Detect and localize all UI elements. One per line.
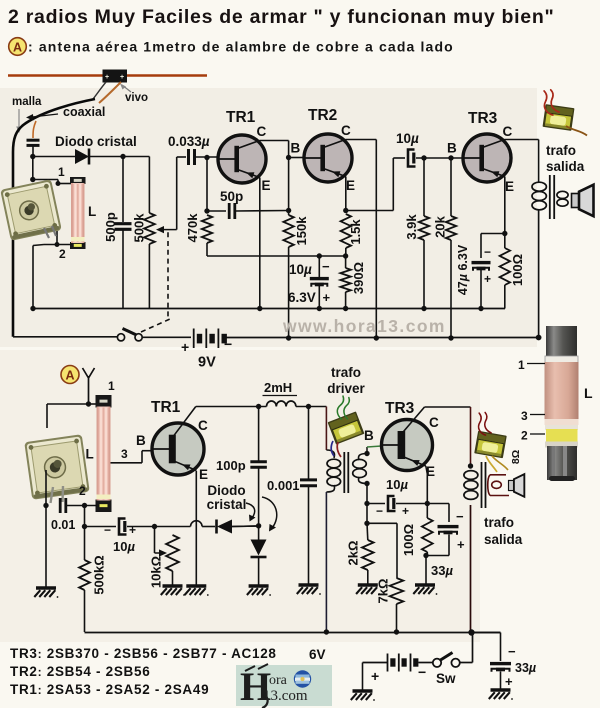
svg-text:C: C [198, 418, 208, 433]
wire green to TR3b base [366, 447, 368, 454]
vivo lead wires [93, 82, 106, 99]
svg-text:−: − [456, 509, 464, 524]
node coil bottom [82, 503, 87, 508]
svg-text:vivo: vivo [125, 92, 148, 104]
bottom rail [85, 632, 501, 634]
node 50p left [204, 208, 209, 213]
node TR3 emitter [502, 231, 507, 236]
svg-text:A: A [65, 369, 74, 383]
diode D3 vertical [251, 540, 267, 556]
svg-text:100Ω: 100Ω [401, 524, 416, 556]
wire 33u corner ground [500, 672, 502, 690]
coil L bottom [96, 395, 112, 408]
capacitor 50p [228, 203, 231, 219]
svg-text:10µ: 10µ [113, 539, 135, 554]
capacitor 500p [115, 222, 132, 225]
wire battery to Sw [418, 662, 433, 664]
wire to coil tap1 [33, 179, 58, 181]
svg-text:470k: 470k [185, 213, 200, 243]
svg-text:coaxial: coaxial [63, 105, 105, 119]
wire D3 stem [258, 526, 260, 540]
ground under TR1b emitter [186, 584, 206, 587]
ground under 2k [358, 583, 378, 586]
battery wire [226, 337, 539, 339]
transistor TR3 bottom [382, 420, 433, 471]
wire coil bottom down [84, 506, 86, 527]
resistor 1.5k [341, 214, 351, 248]
tuning capacitor photo bottom [24, 434, 90, 500]
transistor TR2 [304, 134, 352, 182]
node 50p right [286, 208, 291, 213]
wire 1.5k to common line [345, 248, 347, 256]
svg-text:13.com: 13.com [263, 688, 308, 704]
svg-text:driver: driver [327, 381, 365, 396]
svg-text:2mH: 2mH [264, 380, 292, 395]
node 3.9k rail [421, 306, 426, 311]
svg-text:10kΩ: 10kΩ [149, 556, 164, 588]
svg-text:+: + [505, 674, 513, 689]
svg-text:500k: 500k [132, 213, 147, 243]
wire base node down to 50p line [206, 158, 208, 212]
capacitor 47u 6.3V [472, 261, 491, 264]
wire TR2 base [289, 157, 304, 159]
node common line right [343, 253, 348, 258]
svg-text:6.3V: 6.3V [288, 290, 316, 305]
node 390-rail [343, 306, 348, 311]
wire 0.001 stem [308, 406, 310, 480]
node 150k battery wire [286, 335, 291, 340]
node 100p top [256, 404, 261, 409]
node TR2 collector battery wire [374, 335, 379, 340]
wire wiper to coupling cap [176, 157, 178, 230]
inductor 2mH [267, 401, 296, 407]
svg-text:−: − [376, 504, 383, 518]
svg-text:: antena aérea 1metro de alam: : antena aérea 1metro de alambre de cobr… [28, 39, 454, 55]
svg-text:9V: 9V [198, 355, 216, 371]
trafo salida b primary [464, 471, 478, 480]
wire TR2 emitter to 10u coupling riser [346, 210, 394, 212]
rail (B+ line) [33, 308, 505, 310]
svg-text:2: 2 [79, 484, 86, 498]
antenna note callout A circle [9, 38, 27, 56]
switch top circuit [117, 334, 124, 341]
svg-text:TR2: TR2 [308, 107, 337, 124]
capacitor 0.01 [59, 498, 62, 513]
diode D2 horizontal [215, 520, 218, 534]
svg-text:A: A [13, 41, 22, 55]
svg-text:2: 2 [59, 247, 66, 261]
svg-text:+: + [181, 339, 189, 355]
wire 0.033u to TR1 base [195, 156, 219, 158]
wire emitter to 47u corner [481, 233, 505, 235]
rail left corner [32, 246, 34, 309]
node tap1 [56, 181, 61, 186]
node 10ub left [364, 501, 369, 506]
trafo driver photo [328, 411, 365, 444]
transistor TR1 [218, 135, 266, 183]
wire TR3b collector [425, 406, 471, 408]
svg-text:TR1: TR1 [151, 399, 181, 416]
node emitter-rail [257, 306, 262, 311]
wire TR1b emitter to ground [195, 471, 197, 585]
resistor 470k [202, 215, 212, 243]
resistor 7kohm [390, 578, 404, 604]
svg-text:150k: 150k [294, 216, 309, 246]
svg-text:+: + [323, 290, 331, 305]
wire 10u bypass to rail [318, 286, 320, 309]
trafo salida photo top [543, 104, 575, 131]
svg-text:C: C [341, 123, 351, 138]
500k wiper arrow [163, 229, 177, 231]
resistor 390 [340, 268, 350, 292]
svg-text:E: E [505, 179, 514, 194]
resistor 3.9k [419, 216, 429, 240]
node diode junction [256, 523, 261, 528]
node antenna [86, 401, 91, 406]
capacitor 100p [250, 460, 267, 463]
coaxial cable [13, 99, 95, 337]
node tuning top [30, 177, 35, 182]
wire 7k top [367, 522, 397, 524]
wire 10u top [318, 256, 320, 277]
battery 9V [193, 329, 195, 349]
svg-text:10µ: 10µ [396, 131, 419, 146]
capacitor 10u coupling [408, 150, 416, 167]
svg-text:B: B [291, 141, 301, 156]
trafo driver primary [326, 450, 334, 458]
wire 2k stem [366, 523, 369, 540]
diode D1 cristal [75, 149, 89, 164]
scan texture top circuit [0, 88, 537, 347]
wire 100ohmb stem [426, 504, 428, 519]
node 0.01 left [43, 503, 48, 508]
wire tuning to 0.01 [45, 470, 47, 505]
coil L top circuit [70, 177, 86, 184]
trafo driver core [343, 452, 345, 493]
wire 500p to rail [122, 230, 124, 309]
wire 390 to rail [345, 292, 347, 309]
svg-text:TR1: 2SA53 - 2SA52 - 2SA49: TR1: 2SA53 - 2SA52 - 2SA49 [10, 682, 209, 697]
capacitor 0.033u [187, 149, 190, 165]
svg-text:L: L [584, 385, 593, 401]
svg-text:TR2: 2SB54 - 2SB56: TR2: 2SB54 - 2SB56 [10, 664, 150, 679]
curved arrow to D3 [262, 497, 277, 528]
node 7k rail [394, 629, 399, 634]
svg-text:−: − [224, 336, 232, 352]
trafo salida b photo [474, 431, 507, 459]
svg-text:7kΩ: 7kΩ [376, 579, 391, 604]
malla coupling wire (orange) [33, 121, 36, 138]
svg-text:8Ω: 8Ω [510, 450, 522, 464]
svg-text:Sw: Sw [436, 671, 456, 686]
svg-text:L: L [86, 447, 94, 462]
node detector-left [30, 154, 35, 159]
tap2 wire [56, 231, 58, 244]
tuning cap prongs top [44, 226, 56, 238]
resistor 2kohm [362, 540, 374, 570]
node driver rail [324, 629, 329, 634]
svg-text:+: + [120, 74, 124, 81]
svg-text:Diodo cristal: Diodo cristal [55, 134, 137, 149]
svg-text:TR3: TR3 [468, 110, 498, 127]
svg-text:0.01: 0.01 [51, 518, 75, 532]
wire hop over emitter [155, 526, 191, 528]
resistor 100ohm bottom [422, 518, 433, 552]
wire 33u branch [427, 503, 449, 505]
wire TR3 collector [505, 139, 539, 141]
svg-text:www.hora13.com: www.hora13.com [282, 316, 446, 336]
svg-text:390Ω: 390Ω [351, 262, 366, 294]
trafo salida secondary top [557, 191, 568, 198]
svg-text:6V: 6V [309, 647, 326, 662]
ground under D3 [249, 584, 269, 587]
node 2k top [364, 521, 369, 526]
svg-text:+: + [484, 272, 491, 286]
trafo salida primary coil top [538, 140, 540, 179]
10k wiper line [154, 527, 156, 554]
svg-text:500kΩ: 500kΩ [92, 555, 107, 594]
svg-text:L: L [88, 204, 96, 219]
ground under 10k [163, 584, 183, 587]
svg-text:33µ: 33µ [515, 661, 536, 675]
node 47u rail [478, 306, 483, 311]
node 10u-rail [317, 306, 322, 311]
wire to ground 100ohmb [425, 556, 427, 585]
wire node to 2k [366, 504, 368, 524]
wire 100p stem [258, 406, 260, 462]
svg-text:1: 1 [108, 379, 115, 393]
svg-text:B: B [447, 141, 457, 156]
wire antenna node to tuning [47, 403, 89, 405]
transistor TR3 top [463, 134, 511, 182]
ferrite rod photo [545, 326, 579, 481]
tuning cap prongs bottom [51, 486, 64, 503]
coaxial arrow [32, 114, 58, 117]
svg-text:salida: salida [546, 159, 585, 174]
wire 10u coupling to TR3 base [416, 157, 463, 159]
svg-text:salida: salida [484, 532, 523, 547]
wire TR1 emitter riser [259, 178, 261, 309]
speaker top [572, 185, 594, 217]
svg-text:TR1: TR1 [226, 109, 256, 126]
wire TR1b collector line [196, 406, 267, 408]
wire node to 500k pot corner [123, 156, 149, 158]
wire 47u to rail [480, 270, 482, 309]
wire TR2 collector [346, 139, 377, 141]
svg-text:+: + [129, 523, 136, 537]
transistor TR1 bottom [152, 423, 204, 475]
svg-text:10µ: 10µ [289, 262, 312, 277]
svg-text:trafo: trafo [546, 143, 576, 158]
svg-text:10µ: 10µ [386, 477, 408, 492]
wire Sw to rail [460, 662, 473, 664]
wire TR3b emitter riser [426, 466, 428, 474]
wire 50p right [235, 210, 289, 213]
vivo label arrow [122, 85, 131, 92]
resistor 20k [446, 216, 456, 240]
node 10u series left [82, 524, 87, 529]
capacitor 10u 6.3V bypass [310, 277, 329, 280]
resistor 500kohm [79, 560, 90, 590]
svg-text:−: − [418, 664, 426, 680]
rod tap 1 line [527, 363, 545, 365]
capacitor 0.001 [300, 478, 317, 481]
wire 500k to rail [148, 244, 150, 309]
wire 100ohm stem [504, 234, 506, 249]
node 20k top [448, 155, 453, 160]
svg-text:−: − [322, 259, 330, 274]
svg-text:E: E [262, 178, 271, 193]
node salida rail [468, 629, 474, 635]
svg-text:E: E [199, 467, 208, 482]
wire to 10u series [85, 526, 117, 528]
svg-text:−: − [484, 245, 491, 259]
node rail left [30, 306, 35, 311]
svg-text:0.001: 0.001 [267, 478, 300, 493]
svg-text:100p: 100p [216, 458, 246, 473]
wire 7k bottom [396, 604, 398, 632]
wire TR2 emitter [345, 177, 347, 211]
battery 6V wire left [363, 662, 388, 664]
svg-text:trafo: trafo [484, 515, 514, 530]
wire TR3 emitter riser [504, 177, 506, 234]
rod tap 3 line [530, 414, 545, 416]
svg-text:2 radios Muy Faciles de armar: 2 radios Muy Faciles de armar " y funcio… [8, 6, 554, 28]
ground 33u corner [491, 688, 511, 691]
node diode out [120, 154, 125, 159]
svg-text:1: 1 [518, 358, 525, 372]
antenna wire [8, 74, 207, 76]
resistor 150k [283, 215, 293, 247]
battery 6V [387, 654, 389, 672]
svg-text:TR3: 2SB370 - 2SB56 - 2SB77 -: TR3: 2SB370 - 2SB56 - 2SB77 - AC128 [10, 646, 277, 661]
svg-text:50p: 50p [220, 189, 243, 204]
wire 10k to ground [172, 571, 174, 585]
svg-text:B: B [136, 433, 146, 448]
trafo salida b secondary [490, 474, 506, 476]
svg-text:ora: ora [269, 673, 288, 688]
node TR2 emitter [343, 208, 348, 213]
ground under 100ohmb [415, 583, 435, 586]
antenna symbol bottom [83, 368, 95, 404]
node TR2 base [286, 155, 291, 160]
svg-text:trafo: trafo [331, 365, 361, 380]
wire 0.01 ground [45, 506, 47, 588]
wire 150k to battery wire [288, 247, 290, 338]
node 0.001 top [306, 404, 311, 409]
trafo salida primary stem [538, 210, 540, 338]
wire node to tap1 [32, 157, 34, 180]
wire node down to 500p [122, 157, 124, 223]
trafo driver secondary [358, 454, 367, 461]
svg-text:3: 3 [121, 447, 128, 461]
node 3.9k top [421, 155, 426, 160]
trafo salida b core [481, 462, 483, 508]
svg-text:500p: 500p [103, 212, 118, 242]
wire 10u series right [127, 526, 155, 528]
svg-text:20k: 20k [433, 215, 448, 237]
ground under 0.01 [36, 586, 56, 589]
hora13 logo [236, 664, 332, 708]
wire D2 to node [232, 525, 259, 528]
malla arrow [18, 109, 20, 129]
svg-text:33µ: 33µ [431, 563, 453, 578]
switch Sw [433, 659, 441, 667]
svg-text:+: + [402, 504, 409, 518]
capacitor 10u series TR3b [388, 496, 396, 511]
wire driver primary bottom lead [325, 492, 327, 632]
svg-text:−: − [508, 644, 516, 659]
wire 470k to common line [206, 243, 208, 256]
scan texture bottom circuit [0, 350, 480, 642]
tuning capacitor photo top [0, 179, 62, 241]
svg-text:−: − [104, 523, 111, 537]
wire 10ub right [396, 503, 427, 505]
svg-text:1.5k: 1.5k [348, 219, 363, 245]
svg-text:3: 3 [521, 409, 528, 423]
wire 33u bottom [448, 535, 450, 556]
node TR1 base [204, 155, 209, 160]
switch wire from malla [13, 336, 118, 338]
svg-text:TR3: TR3 [385, 400, 415, 417]
wire to 10ub [367, 503, 385, 505]
switch link dashed [141, 230, 170, 332]
wire 50p left [207, 210, 226, 212]
potentiometer 10kohm [166, 535, 179, 571]
svg-text:Diodo: Diodo [207, 483, 245, 498]
node tap2 [55, 242, 60, 247]
svg-text:+: + [105, 74, 109, 81]
wire secondary bottom down [366, 484, 368, 504]
wire 3.9k stem [423, 158, 425, 216]
svg-text:malla: malla [12, 96, 42, 108]
svg-text:100Ω: 100Ω [510, 254, 525, 286]
svg-text:2: 2 [521, 429, 528, 443]
node TR3b emitter [425, 501, 430, 506]
resistor 100ohm top [500, 248, 510, 285]
node 100ohmb bottom [423, 553, 428, 558]
curved arrow to D2 [246, 503, 255, 518]
potentiometer 500k [144, 213, 155, 244]
svg-text:+: + [457, 537, 465, 552]
trafo salida core top [549, 175, 551, 219]
common bias line [207, 255, 346, 257]
node 10k wiper [152, 524, 157, 529]
rod tap 2 line [530, 433, 545, 435]
wire TR2 base node down [288, 158, 290, 216]
svg-text:1: 1 [58, 165, 65, 179]
svg-text:C: C [503, 124, 513, 139]
node driver secondary top [364, 451, 369, 456]
wire 500kohm stem [84, 527, 86, 561]
wire 0.01 right [66, 505, 97, 507]
node 10u bypass top [317, 253, 322, 258]
svg-text:0.033µ: 0.033µ [168, 134, 210, 149]
node trafo salida b top [468, 463, 473, 468]
capacitor 33u [438, 525, 459, 528]
ground under 0.001 [299, 583, 319, 586]
svg-text:E: E [346, 178, 355, 193]
wire cap to detector node [32, 146, 34, 158]
wire detector node to diode [33, 156, 75, 158]
battery 6V ground stem [362, 663, 364, 691]
A callout bottom [61, 366, 79, 384]
svg-text:3.9k: 3.9k [404, 214, 419, 240]
antenna connector block (vivo) [103, 70, 128, 83]
node battery wire end [536, 335, 542, 341]
svg-text:47µ 6.3V: 47µ 6.3V [456, 244, 470, 295]
wire rail to 33u corner [472, 632, 501, 634]
